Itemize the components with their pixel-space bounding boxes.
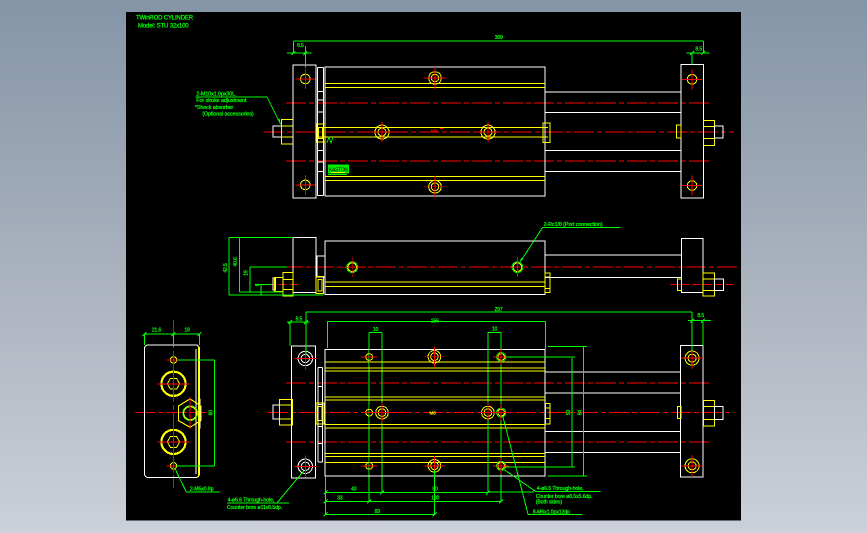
extension line x369 [368, 333, 370, 502]
bottom dimension line 83 [326, 513, 435, 515]
svg-text:Model: STU 32x100: Model: STU 32x100 [138, 24, 189, 30]
leader counterbore text [487, 420, 489, 492]
label 2-M5x0.8p [175, 469, 186, 492]
svg-text:21.6: 21.6 [152, 327, 162, 333]
centerline upper guide rod (bottom view) [286, 382, 712, 384]
svg-text:43: 43 [351, 487, 357, 493]
body top edge line 1 [325, 83, 545, 85]
dimension 8.5 right (top view) [686, 52, 709, 54]
dimension 19 [249, 267, 251, 292]
counterbore hole top mid [428, 350, 441, 363]
spacer column (bottom view) [317, 368, 319, 463]
svg-text:M8: M8 [431, 129, 438, 134]
right end plate (middle view) [681, 238, 703, 292]
rod washer (bottom view) [316, 403, 324, 424]
rod circle 1 [375, 125, 389, 139]
upper guide tube (bottom view) [545, 371, 681, 373]
M6 hole top right (highlighted) [498, 354, 505, 361]
rod circle 2 [481, 125, 495, 139]
rod boss edge [199, 398, 201, 428]
cylinder body (middle view) [325, 241, 545, 294]
extension line x382 [381, 333, 383, 493]
guide tube (middle view) [545, 254, 681, 256]
extension line x501 [500, 333, 502, 502]
spacer (middle view) [316, 256, 325, 277]
horizontal centerline (end view) [135, 412, 206, 414]
svg-text:83: 83 [375, 509, 381, 515]
svg-text:8.5: 8.5 [297, 43, 304, 49]
inner edge line [195, 349, 197, 474]
M6 hole bottom right (highlighted) [498, 462, 505, 469]
extension line x488 [487, 333, 489, 493]
leader from bottom hole [504, 470, 536, 492]
centerline front rod left (middle view) [268, 284, 298, 286]
svg-text:8-M6x1.0px12dp: 8-M6x1.0px12dp [533, 509, 570, 515]
centerline lower guide rod (bottom view) [286, 441, 712, 443]
dimension 50 [571, 358, 573, 467]
right plate hole top [685, 351, 699, 365]
left plate hole bottom [301, 180, 311, 190]
lower guide tube (bottom view) [545, 430, 681, 432]
centerline lower guide rod (top view) [286, 160, 712, 162]
right plate hole bottom [687, 181, 697, 191]
bottom dimension line 43/80 [326, 492, 489, 494]
right end plate (bottom view) [681, 346, 703, 477]
svg-text:33: 33 [337, 496, 343, 502]
dimension 8.5 right (bottom view) [688, 320, 711, 322]
port hole left Rc1/8 [348, 263, 357, 272]
dimension 40.6 [238, 238, 240, 293]
svg-text:309: 309 [495, 35, 503, 41]
svg-text:8.5: 8.5 [296, 316, 303, 322]
cylinder body (bottom view) [325, 349, 545, 476]
dimension 80 (end view) [214, 360, 216, 466]
M5 hole top (end view) [170, 357, 176, 363]
svg-text:10: 10 [492, 326, 498, 332]
M6 hole bottom left [366, 462, 373, 469]
svg-text:Counter bore ø11x6.5dp.: Counter bore ø11x6.5dp. [227, 505, 282, 511]
cylinder body (top view) [325, 67, 545, 196]
dimension 6 [260, 285, 262, 296]
counterbore hole top left [298, 351, 312, 365]
centerline upper guide rod (top view) [286, 102, 712, 104]
end plate (end view) [144, 345, 199, 478]
rod end cap [543, 123, 550, 142]
label 4-dia6.6 through hole [227, 471, 304, 512]
rod clip right (bottom view) [677, 406, 681, 418]
svg-text:4-ø6.6 Through-hole,: 4-ø6.6 Through-hole, [228, 498, 275, 504]
rod washer (middle view) [316, 277, 323, 294]
body bolt hole top [429, 72, 442, 85]
centerline piston rod (top view) [264, 131, 734, 133]
manufacturer logo [328, 165, 349, 174]
lower guide tube (top view) [545, 150, 681, 152]
dimension 84 [583, 347, 585, 476]
centerline front rod right (middle view) [670, 284, 733, 286]
svg-text:8.5: 8.5 [695, 46, 702, 52]
svg-text:2-Rc1/8 (Port connection): 2-Rc1/8 (Port connection) [544, 222, 603, 228]
dimension 156 [328, 320, 546, 322]
dimension 309 [293, 40, 703, 42]
spacer strip (top view) [317, 68, 319, 196]
centerline main axis (middle view) [283, 266, 738, 268]
M6 hole mid right (highlighted) [498, 409, 505, 416]
M6 hole top left [366, 354, 373, 361]
front guide rod (middle view) [325, 281, 545, 283]
body yellow lines (bottom view) [325, 361, 545, 363]
left plate hole top [301, 74, 311, 84]
rod washer at left plate [317, 124, 326, 142]
right nut (middle view) [703, 273, 714, 296]
stroke adjust bolt left (top view) [273, 126, 282, 137]
svg-text:84: 84 [577, 410, 583, 416]
adjust bolt (bottom view) [273, 405, 279, 419]
svg-text:*Shock absorber: *Shock absorber [195, 105, 234, 111]
right plate hole bottom [685, 459, 699, 473]
svg-text:2-M10x1.0px30L.: 2-M10x1.0px30L. [196, 91, 236, 97]
body bottom edge line 1 [325, 175, 545, 177]
svg-text:80: 80 [208, 410, 214, 416]
piston rod nut hex (end view) [178, 399, 201, 427]
M6 hole mid left [366, 409, 373, 416]
svg-text:(Optional accessories): (Optional accessories) [202, 112, 254, 118]
svg-text:100: 100 [431, 496, 439, 502]
svg-text:TWinROD CYLINDER: TWinROD CYLINDER [136, 16, 194, 22]
svg-text:297: 297 [494, 307, 502, 313]
upper guide tube (top view) [545, 91, 681, 93]
svg-text:19: 19 [244, 270, 250, 276]
counterbore hole mid right [482, 406, 495, 419]
dimension 10 left [369, 332, 382, 334]
svg-text:156: 156 [431, 318, 439, 324]
dimension 10 right [488, 332, 501, 334]
body top edge line 2 [325, 87, 545, 89]
dimension 8.5 left (bottom view) [287, 321, 310, 323]
bottom dimension line 33/100 [326, 501, 502, 503]
counterbore hole bottom mid [428, 460, 441, 473]
svg-text:M8: M8 [430, 410, 437, 415]
adjust bolt (middle view) [273, 278, 276, 290]
svg-text:10: 10 [373, 327, 379, 333]
svg-text:8.5: 8.5 [697, 313, 704, 319]
svg-text:For stroke adjustment: For stroke adjustment [196, 98, 247, 104]
rod clip left of right plate [676, 125, 681, 138]
label 2-M10x1.0px30L leader [267, 97, 281, 124]
right rod nut (bottom view) [703, 400, 714, 426]
washer plate edge (yellow) [197, 346, 199, 477]
svg-text:19: 19 [184, 327, 190, 333]
dimension 297 [306, 311, 692, 313]
cushion spring mark [327, 137, 333, 143]
dimension 42.5 [228, 238, 230, 296]
guide rod bushing bottom [161, 430, 185, 454]
svg-text:2-M5x0.8p: 2-M5x0.8p [190, 487, 214, 493]
body bolt hole bottom [429, 180, 442, 193]
right rod nut [703, 120, 714, 145]
dimension 21.6/19 (end view) [144, 333, 199, 335]
drawing canvas [126, 12, 741, 521]
svg-text:50: 50 [566, 410, 572, 416]
left end plate (middle view) [293, 238, 316, 293]
svg-text:(Both sides): (Both sides) [536, 499, 563, 505]
guide rod bushing top [161, 372, 185, 396]
rod clip (middle view) [677, 279, 681, 291]
piston rod (top view) [316, 126, 548, 128]
vertical centerline (end view) [173, 320, 175, 488]
centerline piston axis (bottom view) [268, 412, 734, 414]
rod end cap (middle view) [545, 273, 550, 293]
svg-text:40.6: 40.6 [233, 257, 239, 267]
rod end cap (bottom view) [545, 403, 550, 424]
right end plate (top view) [681, 65, 703, 198]
M5 hole bottom (end view) [170, 463, 176, 469]
port hole right Rc1/8 [513, 263, 522, 272]
svg-text:4-ø6.5 Through-hole,: 4-ø6.5 Through-hole, [537, 486, 584, 492]
left end plate (top view) [293, 65, 316, 198]
counterbore hole mid left [376, 406, 389, 419]
body bottom edge line 2 [325, 180, 545, 182]
svg-text:80: 80 [432, 487, 438, 493]
label 2-Rc1/8 port connection [543, 227, 621, 229]
left end plate (bottom view) [292, 346, 316, 478]
dimension 8.5 left (top view) [287, 52, 312, 54]
leader M6 text [503, 417, 528, 515]
right plate hole top [687, 75, 697, 85]
counterbore hole bottom left [298, 459, 312, 473]
svg-text:6: 6 [255, 283, 261, 286]
svg-text:42.5: 42.5 [223, 263, 229, 273]
